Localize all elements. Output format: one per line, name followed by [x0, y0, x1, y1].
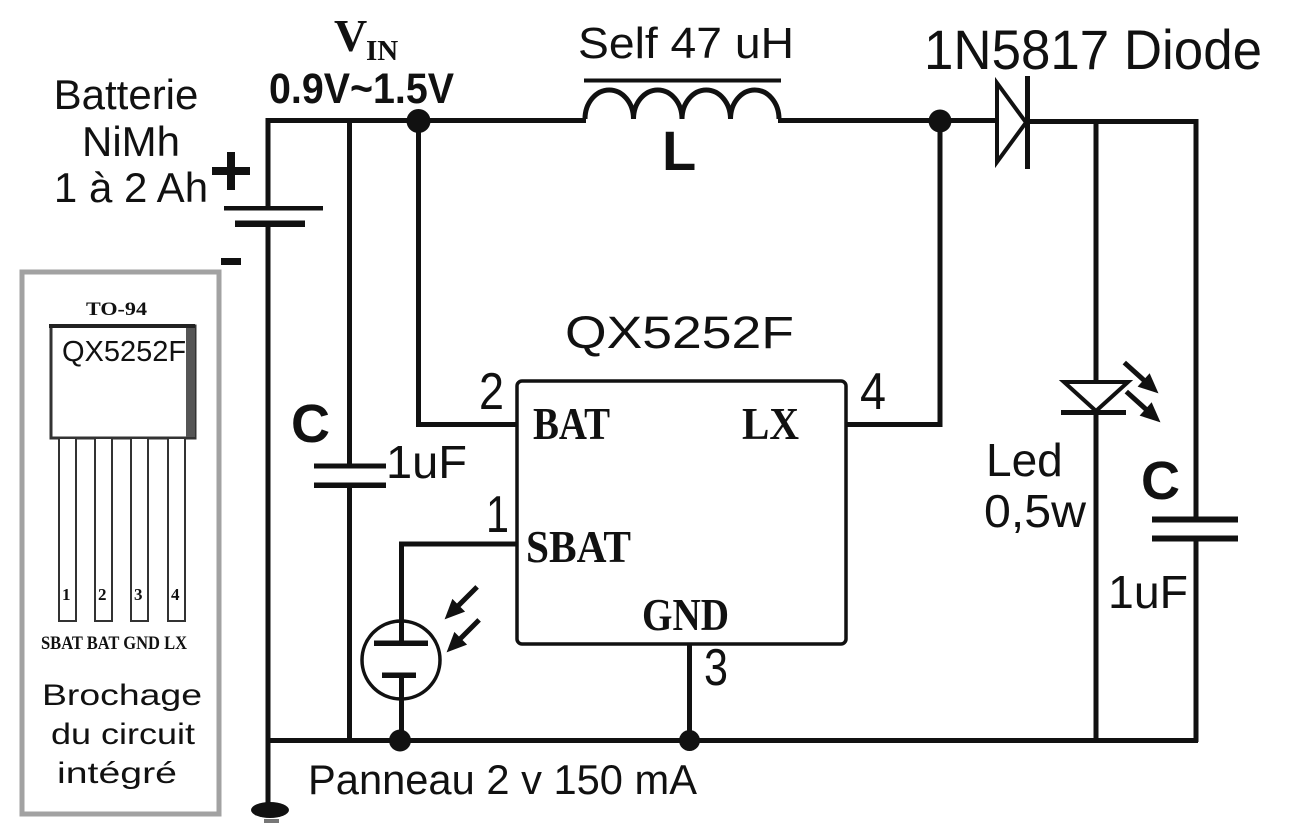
svg-text:IN: IN — [366, 35, 398, 67]
capacitor C2 plates — [1152, 517, 1238, 523]
svg-text:1N5817 Diode: 1N5817 Diode — [924, 18, 1262, 81]
svg-text:Self 47 uH: Self 47 uH — [578, 19, 794, 68]
capacitor C1 rail — [347, 118, 352, 465]
svg-text:0.9V~1.5V: 0.9V~1.5V — [269, 65, 454, 113]
svg-text:Batterie: Batterie — [54, 71, 199, 118]
node junction bottom-mid — [679, 730, 700, 751]
capacitor C1 plates — [314, 464, 386, 469]
svg-text:Panneau 2 v 150 mA: Panneau 2 v 150 mA — [308, 756, 697, 803]
node junction bottom-left — [389, 730, 411, 752]
svg-text:C: C — [291, 394, 330, 454]
package body — [49, 324, 195, 438]
battery minus sign — [221, 258, 241, 265]
LED arrows — [1118, 356, 1166, 429]
solar panel PV1 — [362, 621, 440, 742]
label Batterie NiMh 1 a 2 Ah — [54, 71, 208, 211]
battery B1 — [224, 118, 323, 742]
ground — [251, 740, 289, 823]
inductor L (Self 47 uH) — [584, 81, 781, 120]
svg-text:du circuit: du circuit — [51, 718, 196, 751]
wire GND pin — [687, 644, 692, 742]
svg-text:GND: GND — [642, 589, 729, 640]
solar panel arrows — [438, 581, 485, 659]
svg-text:1uF: 1uF — [1108, 566, 1188, 618]
svg-text:1: 1 — [62, 585, 71, 604]
svg-text:NiMh: NiMh — [82, 118, 180, 165]
svg-text:3: 3 — [704, 639, 728, 697]
svg-text:Brochage: Brochage — [42, 679, 202, 712]
svg-text:1uF: 1uF — [386, 436, 467, 488]
wire bottom rail — [266, 738, 1198, 743]
svg-text:1: 1 — [486, 486, 509, 544]
svg-text:intégré: intégré — [57, 757, 177, 790]
package leg 3 — [131, 438, 148, 621]
svg-text:SBAT: SBAT — [526, 521, 631, 572]
svg-text:BAT: BAT — [533, 398, 610, 449]
svg-text:V: V — [334, 10, 367, 61]
label Brochage du circuit integre — [42, 679, 202, 790]
package leg 4 — [168, 438, 185, 621]
package leg 1 — [59, 438, 76, 621]
battery plus sign — [212, 152, 250, 190]
wire BAT rail — [419, 121, 518, 425]
wire right rail lower — [1194, 541, 1199, 742]
svg-text:2: 2 — [479, 363, 504, 421]
svg-text:4: 4 — [860, 363, 886, 421]
svg-text:L: L — [662, 119, 696, 182]
wire SBAT pin — [402, 544, 518, 622]
label VIN — [334, 10, 398, 67]
wire right rail upper — [1194, 119, 1199, 518]
node junction top-right — [929, 110, 952, 133]
svg-text:2: 2 — [98, 585, 107, 604]
svg-text:0,5w: 0,5w — [984, 485, 1087, 537]
svg-text:QX5252F: QX5252F — [62, 336, 186, 368]
package leg 2 — [95, 438, 112, 621]
wire LX rail — [846, 121, 940, 425]
IC U1 QX5252F box — [517, 381, 846, 644]
wire top rail right (diode to right rail) — [1027, 119, 1198, 124]
wire LED rail upper — [1094, 122, 1099, 383]
LED D2 — [1061, 382, 1128, 415]
svg-text:3: 3 — [134, 585, 143, 604]
package drawing TO-94 outer box — [22, 272, 219, 814]
svg-text:4: 4 — [171, 585, 180, 604]
wire LED rail lower — [1094, 413, 1099, 742]
diode D1 1N5817 — [997, 76, 1028, 169]
wire top rail mid (inductor to diode) — [778, 118, 998, 123]
node junction top-left — [407, 109, 431, 133]
svg-text:TO-94: TO-94 — [86, 299, 148, 320]
leg numbers — [62, 585, 180, 604]
svg-text:LX: LX — [742, 398, 799, 449]
svg-text:QX5252F: QX5252F — [565, 307, 794, 358]
wire top rail left — [266, 118, 586, 123]
svg-text:Led: Led — [986, 434, 1063, 486]
svg-text:1 à 2 Ah: 1 à 2 Ah — [54, 164, 208, 211]
svg-text:C: C — [1141, 451, 1180, 511]
svg-text:SBAT BAT GND LX: SBAT BAT GND LX — [41, 633, 187, 654]
